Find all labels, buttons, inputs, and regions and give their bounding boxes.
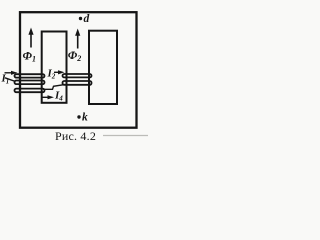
flux arrow Phi2 — [75, 29, 80, 49]
svg-text:k: k — [82, 112, 88, 124]
coil W1 turn 3 — [15, 89, 45, 93]
coil W1 turn 2 — [15, 81, 45, 85]
coil W2 turn 2 — [63, 81, 92, 85]
coil W1 turn 1 — [15, 74, 45, 77]
node k — [77, 115, 80, 118]
svg-text:Рис. 4.2: Рис. 4.2 — [55, 129, 96, 143]
wire lead I1 with arrow — [5, 71, 18, 75]
node d — [79, 17, 82, 20]
left window — [42, 32, 67, 103]
wire connecting W2 to W1 — [43, 85, 65, 90]
wire lead I4 with arrow — [43, 95, 55, 99]
page artifact line — [103, 135, 148, 137]
wire lead I2 with arrow — [54, 70, 65, 74]
svg-text:d: d — [84, 13, 90, 25]
coil W2 turn 1 — [63, 74, 92, 77]
right window — [89, 31, 117, 104]
flux arrow Phi1 — [28, 28, 33, 48]
wire lead 2 of W1 — [5, 78, 16, 82]
core outer frame — [20, 12, 137, 128]
